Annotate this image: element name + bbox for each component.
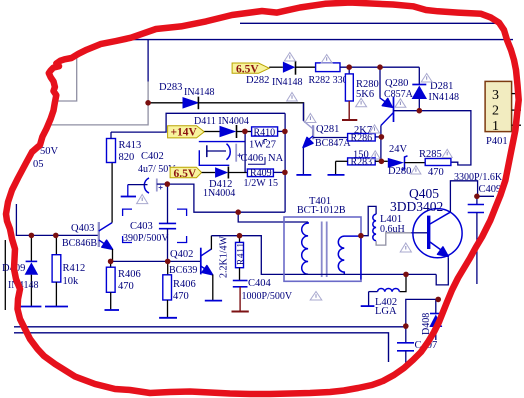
- capacitor C409: [454, 172, 503, 284]
- transformer T401: [284, 196, 361, 281]
- svg-text:C404: C404: [248, 278, 272, 289]
- warning triangle left of Q405: [400, 243, 411, 252]
- svg-text:D280: D280: [388, 166, 411, 177]
- svg-text:Q403: Q403: [71, 223, 94, 234]
- ground C404 dark red: [232, 287, 249, 312]
- ground R406 second: [159, 317, 177, 319]
- svg-text:BC847A: BC847A: [315, 138, 351, 149]
- wire Q402 base line: [111, 260, 201, 262]
- warning triangle at D281: [421, 74, 432, 83]
- node R412 top junction: [53, 233, 59, 239]
- warning triangle at Q280: [395, 99, 406, 108]
- wire left border black: [4, 240, 6, 310]
- wire D283 line: [148, 103, 304, 121]
- node R411 top junction: [237, 233, 243, 239]
- node Q280 emitter junction: [377, 64, 383, 70]
- wire Q280 collector: [380, 126, 382, 162]
- resistor R283 boxed: [336, 150, 388, 168]
- resistor R406 second: [163, 261, 196, 317]
- node Q280 base junction: [417, 108, 423, 114]
- transistor Q403: [62, 163, 113, 262]
- node Q402 base junction: [165, 259, 171, 265]
- svg-text:390P/500V: 390P/500V: [123, 233, 169, 244]
- diode D408: [421, 299, 442, 340]
- node 50V label: [33, 146, 59, 170]
- node R409 right junction: [282, 170, 288, 176]
- svg-text:150: 150: [353, 150, 369, 161]
- svg-text:C403: C403: [130, 221, 153, 232]
- svg-text:+14V: +14V: [171, 127, 198, 139]
- diode D280 zener 24V: [388, 144, 425, 177]
- svg-text:24V: 24V: [389, 144, 408, 155]
- ground Q281: [296, 174, 311, 176]
- wire R410 right column: [284, 113, 286, 212]
- svg-text:D411 IN4004: D411 IN4004: [194, 116, 249, 127]
- node D408 top junction: [435, 297, 441, 303]
- node C407 top junction: [403, 323, 409, 329]
- svg-text:05: 05: [33, 159, 44, 170]
- svg-text:1/2W 15: 1/2W 15: [244, 178, 279, 189]
- resistor R406: [106, 261, 140, 309]
- wire D408 net: [406, 299, 438, 326]
- wire T401 secondary right edge: [360, 236, 362, 280]
- diode D412: [202, 167, 248, 200]
- svg-text:470: 470: [173, 291, 189, 302]
- svg-text:IN4148: IN4148: [184, 87, 215, 98]
- wire Q403 base net: [16, 204, 98, 235]
- svg-text:IN4148: IN4148: [8, 280, 39, 291]
- wire Q405 base lead: [411, 232, 427, 234]
- svg-text:BC639: BC639: [169, 265, 197, 276]
- svg-text:P401: P401: [486, 136, 508, 147]
- ground L402: [361, 292, 375, 307]
- wire left drop from top bus: [147, 40, 149, 82]
- wire +14V feed: [111, 113, 285, 132]
- warning triangle below C402: [137, 195, 148, 204]
- svg-text:R282 330: R282 330: [309, 75, 348, 86]
- warning triangle above D282: [284, 53, 295, 62]
- wire top bus 2: [112, 39, 513, 41]
- svg-text:6.5V: 6.5V: [174, 168, 197, 180]
- svg-text:R410: R410: [254, 127, 276, 138]
- wire bottom bus lower: [14, 333, 389, 362]
- wire Q405 emitter: [436, 257, 448, 285]
- resistor R409 boxed: [244, 168, 286, 189]
- svg-text:C406: C406: [241, 153, 264, 164]
- warning triangle near D283 top: [287, 93, 298, 102]
- svg-text:Q402: Q402: [170, 249, 193, 260]
- svg-text:NA: NA: [268, 153, 284, 164]
- wire C402 node to T401: [167, 184, 285, 212]
- svg-text:3: 3: [492, 88, 499, 103]
- wire L402 net: [400, 274, 407, 291]
- capacitor C402: [128, 151, 176, 193]
- resistor R282: [309, 63, 420, 86]
- svg-text:5K6: 5K6: [356, 89, 374, 100]
- svg-text:50V: 50V: [40, 146, 59, 157]
- transistor Q281: [303, 103, 351, 175]
- resistor R280: [345, 67, 378, 101]
- svg-text:6.5V: 6.5V: [236, 64, 259, 76]
- warning triangle below R280: [356, 98, 367, 107]
- svg-text:1: 1: [492, 119, 499, 134]
- svg-text:2K7: 2K7: [354, 125, 372, 136]
- wire bottom bus upper: [14, 326, 406, 328]
- resistor R412: [52, 235, 85, 306]
- resistor R411: [219, 236, 246, 281]
- svg-text:D282: D282: [246, 75, 269, 86]
- resistor R285: [419, 149, 451, 178]
- node D283 anode junction: [145, 100, 151, 106]
- wire D281 base net to P401 column: [419, 111, 471, 165]
- ground C402: [121, 185, 136, 197]
- svg-text:LGA: LGA: [375, 306, 397, 317]
- svg-text:820: 820: [119, 152, 135, 163]
- ground D409: [18, 306, 41, 308]
- svg-text:10k: 10k: [63, 276, 80, 287]
- node T401 primary feed junction: [235, 209, 241, 215]
- warning triangle at 2K7: [370, 125, 380, 133]
- warning triangle above Q281: [305, 114, 316, 123]
- svg-text:1W: 1W: [249, 140, 264, 151]
- svg-text:R412: R412: [63, 263, 86, 274]
- svg-text:R413: R413: [119, 140, 142, 151]
- wire Q405 collector: [450, 181, 477, 212]
- svg-text:R411: R411: [236, 243, 246, 265]
- node T401 secondary junction: [358, 233, 364, 239]
- node C409 top junction: [474, 194, 480, 200]
- ground R283: [328, 161, 345, 175]
- transistor Q402: [169, 236, 213, 300]
- node Q403 emitter junction: [108, 259, 114, 265]
- wire T401 primary top feed: [238, 212, 308, 222]
- svg-text:D281: D281: [430, 81, 453, 92]
- node C402-C403 junction: [165, 181, 171, 187]
- svg-text:Q281: Q281: [316, 124, 339, 135]
- resistor R410 boxed: [249, 127, 285, 151]
- svg-text:3DD3402: 3DD3402: [390, 199, 443, 214]
- svg-text:2.2K1/4W: 2.2K1/4W: [219, 236, 230, 279]
- diode D282: [246, 61, 316, 88]
- diode D409: [2, 235, 39, 306]
- ground Q402: [205, 300, 222, 302]
- warning triangle at D280: [411, 166, 421, 174]
- warning triangle at R285: [442, 149, 452, 157]
- wire grey drop to D283 node: [49, 82, 148, 125]
- node R283 right junction: [379, 159, 385, 165]
- svg-text:1000P/500V: 1000P/500V: [242, 291, 293, 302]
- node R286 right junction: [379, 134, 385, 140]
- resistor R286 boxed: [348, 125, 382, 144]
- wire C406 right column: [244, 131, 246, 172]
- node L402 top junction: [403, 272, 409, 278]
- resistor R413: [107, 132, 142, 163]
- svg-text:C857A: C857A: [384, 89, 414, 100]
- diode D281: [412, 67, 459, 111]
- svg-text:D283: D283: [159, 82, 182, 93]
- power flag +14V: [168, 126, 205, 139]
- svg-text:470: 470: [118, 281, 134, 292]
- svg-text:BC846B: BC846B: [62, 238, 97, 249]
- transistor Q280: [380, 67, 420, 126]
- inductor L401: [361, 206, 411, 245]
- capacitor C406: [199, 142, 284, 166]
- diode D283: [159, 82, 215, 109]
- node D409 top junction: [29, 233, 35, 239]
- capacitor C407: [397, 327, 437, 365]
- svg-text:3300P/1.6K: 3300P/1.6K: [454, 172, 503, 183]
- svg-text:27: 27: [266, 140, 277, 151]
- node D411-R410 junction: [242, 129, 248, 135]
- svg-text:2: 2: [492, 104, 499, 119]
- power flag 6.5V at C402: [170, 167, 202, 180]
- warning triangle above R282: [321, 55, 332, 64]
- svg-text:Q280: Q280: [385, 78, 408, 89]
- node R280 top junction: [346, 64, 352, 70]
- wire grey partial box top-left: [58, 52, 77, 101]
- wire top bus 1: [240, 22, 497, 24]
- svg-text:R285: R285: [419, 149, 442, 160]
- ground R412: [45, 306, 68, 308]
- node R410 right junction: [282, 129, 288, 135]
- warning triangle below T401: [310, 292, 322, 301]
- warning triangle at 150: [370, 151, 380, 159]
- svg-text:C402: C402: [141, 151, 164, 162]
- ground R280 dark red: [342, 101, 357, 120]
- diode D411: [194, 116, 252, 138]
- inductor L402: [369, 289, 400, 317]
- transistor Q405: [390, 186, 462, 258]
- ground R406: [105, 309, 120, 311]
- power flag 6.5V at D412: [232, 63, 269, 76]
- capacitor C404: [233, 278, 293, 302]
- svg-text:R406: R406: [118, 269, 141, 280]
- svg-text:470: 470: [428, 167, 444, 178]
- wire T401 bottom through line: [302, 273, 436, 275]
- capacitor C403: [123, 184, 187, 261]
- svg-text:IN4148: IN4148: [272, 77, 303, 88]
- svg-text:1N4004: 1N4004: [203, 188, 235, 199]
- connector P401: [485, 81, 521, 147]
- svg-text:0.6uH: 0.6uH: [380, 224, 405, 235]
- svg-text:IN4148: IN4148: [429, 92, 460, 103]
- wire Q402 collector run: [211, 236, 302, 275]
- svg-text:R406: R406: [173, 279, 196, 290]
- svg-text:D408: D408: [421, 313, 432, 335]
- svg-text:BCT-1012B: BCT-1012B: [297, 205, 346, 216]
